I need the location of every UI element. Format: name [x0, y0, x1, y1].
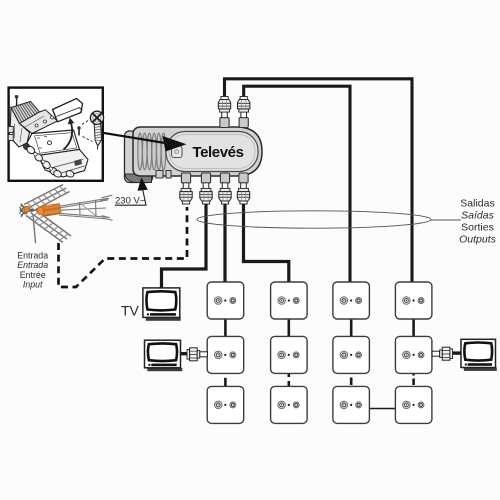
wire bottom output 3 to outlet column 2: [244, 201, 289, 283]
inset: small screw on lid top: [15, 95, 18, 106]
Salidas outputs label: [459, 198, 497, 246]
wire bottom output 1 to TV1: [162, 201, 207, 289]
outlet col4 row1: [395, 282, 432, 319]
wire column 2 row2-row3 stubs: [287, 373, 290, 387]
arrow inset to amplifier: [104, 133, 187, 152]
svg-text:Entrada: Entrada: [17, 251, 48, 261]
inset: dashed leader lines: [82, 120, 93, 142]
svg-text:Outputs: Outputs: [459, 234, 497, 246]
outlet col3 row3: [333, 386, 370, 423]
wire column 3 row2-row3 stubs: [350, 371, 353, 386]
inset: big screw: [90, 111, 103, 149]
outputs ellipse: [197, 211, 461, 228]
Televés logo text: [192, 144, 243, 161]
svg-text:Entrada: Entrada: [17, 260, 48, 270]
F-plug top output 1: [218, 97, 230, 128]
antenna: [20, 185, 113, 244]
F-plug bottom out2: [219, 173, 231, 204]
svg-text:Saídas: Saídas: [461, 210, 494, 222]
TV3 connector to outlet: [432, 347, 461, 360]
outlet col1 row3: [207, 386, 244, 423]
TV 3: [461, 339, 497, 371]
outlet col4 row3: [395, 386, 432, 423]
inset: bottom connector cylinders: [22, 142, 75, 178]
F-plug top output 2: [238, 97, 250, 128]
svg-text:Salidas: Salidas: [460, 198, 494, 210]
inset: open case interior: [27, 130, 80, 156]
svg-text:TV: TV: [121, 303, 140, 319]
outlet col2 row1: [271, 282, 308, 319]
TV2 connector to outlet: [181, 348, 208, 361]
svg-text:Input: Input: [23, 280, 43, 290]
wire column 3 row1-row2: [350, 318, 353, 337]
wire column 4 row2-row3 stubs: [412, 373, 415, 385]
antenna orange housing: [24, 204, 61, 217]
wire row3 col3 to col4: [370, 408, 396, 410]
wire column 1 row2-row3 stub: [224, 378, 227, 386]
TV 1: [143, 288, 181, 321]
F-plug bottom input (antenna): [180, 173, 192, 204]
amplifier U1 body: [125, 127, 263, 183]
wire top output 2 to outlet column 3: [244, 86, 350, 283]
inset: case rim between lid and interior: [20, 110, 58, 134]
230V label: [115, 178, 148, 206]
svg-text:Televés: Televés: [192, 144, 243, 161]
inset: small screw target: [77, 126, 80, 135]
inset detail box: [9, 88, 103, 181]
Entrada input label: [17, 251, 48, 290]
outlet col3 row2: [333, 336, 370, 373]
outlet col2 row2: [271, 336, 308, 373]
F-plug bottom out3: [237, 173, 249, 204]
svg-text:Entrée: Entrée: [20, 270, 46, 280]
svg-text:Sorties: Sorties: [461, 222, 494, 234]
wire top output 1 to outlet column 4: [225, 79, 413, 283]
wire column 4 row1-row2: [412, 318, 415, 337]
outlet col4 row2: [395, 336, 432, 373]
wire bottom output 2 to outlet column 1: [223, 201, 226, 283]
inset: curved open arrow: [64, 118, 75, 150]
F-plug bottom out1: [200, 173, 212, 204]
wire column 2 row1-row2: [287, 318, 290, 337]
dashed antenna input cable: [59, 207, 188, 287]
outlet col2 row3: [271, 386, 308, 423]
inset: body left side with ports: [8, 108, 29, 148]
inset: opened lid flap: [53, 99, 83, 122]
outlet col1 row2: [207, 336, 244, 373]
TV 2: [145, 340, 183, 371]
outlet col3 row1: [333, 282, 370, 319]
inset: ribbed lid panel: [11, 102, 40, 124]
wire column 1 row1-row2: [224, 318, 227, 337]
inset: case lower-right shell: [38, 150, 88, 178]
outlet col1 row1: [207, 282, 244, 319]
